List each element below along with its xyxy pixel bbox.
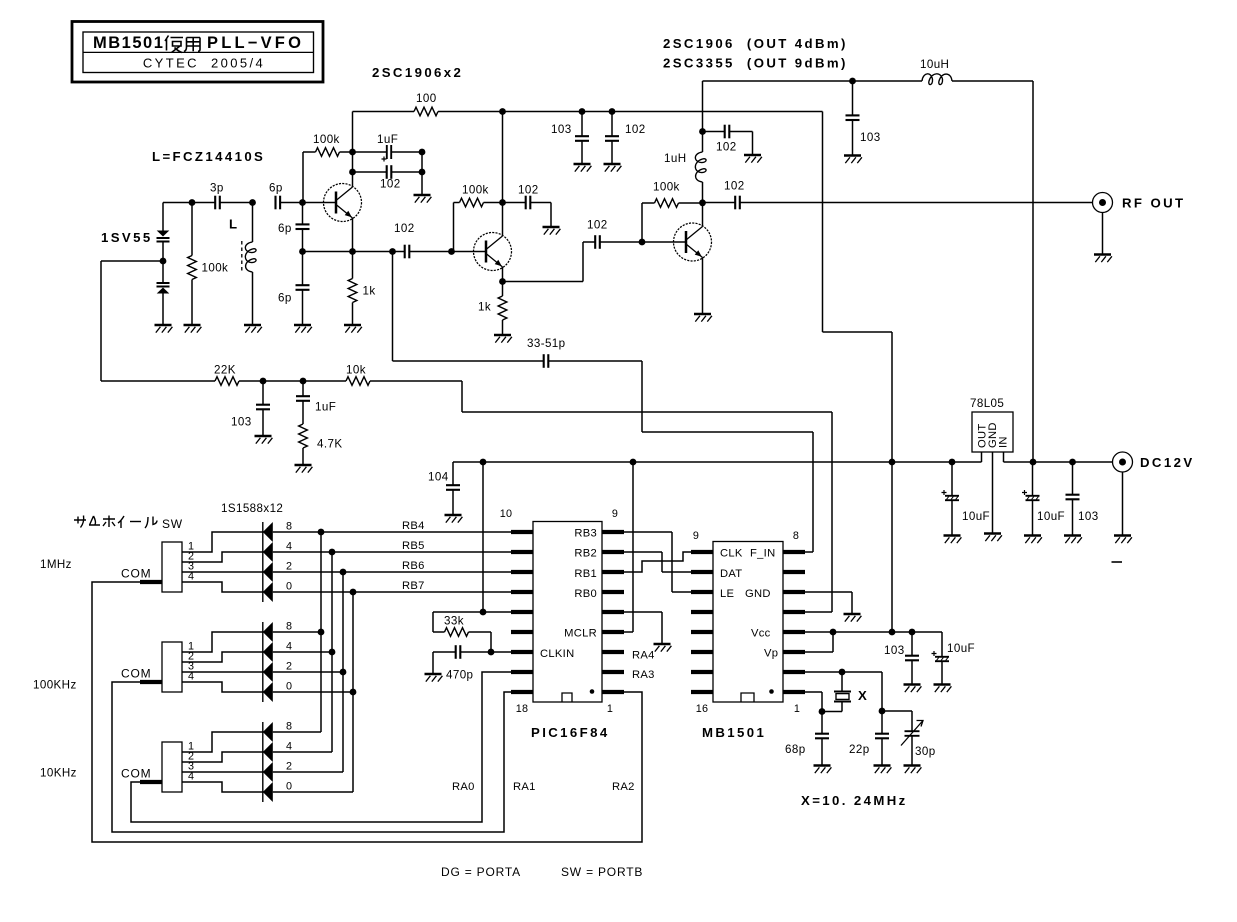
node Q1 base (299, 199, 306, 206)
ground 104 (445, 515, 463, 523)
node 22p (879, 708, 886, 715)
resistor 100 collector supply (353, 107, 503, 116)
label RF OUT (1122, 196, 1185, 211)
wire Q2 emitter out (503, 242, 584, 282)
svg-text:10uF: 10uF (947, 642, 975, 655)
ground 10uF 12V (1024, 536, 1042, 544)
label RB5 (402, 540, 425, 552)
svg-text:COM: COM (121, 767, 151, 781)
connector RF OUT (1093, 193, 1113, 213)
wire GND pin (805, 592, 852, 614)
diode bar 10KHz SW3 (262, 722, 264, 802)
transistor Q3 2SC3355 (674, 223, 712, 261)
capacitor 102 rail bypass (605, 112, 619, 165)
wire OSCin (805, 692, 822, 712)
label 103 12V (860, 131, 881, 144)
pin label RB1 (574, 568, 597, 580)
svg-text:PLL−VFO: PLL−VFO (207, 34, 304, 52)
capacitor 103 rail bypass (575, 112, 589, 165)
svg-text:68p: 68p (785, 743, 806, 756)
wire emitter rail (303, 251, 405, 253)
capacitor 470p osc (433, 645, 511, 674)
svg-text:18: 18 (516, 703, 528, 715)
bus weight0 (350, 589, 357, 792)
svg-text:102: 102 (724, 180, 745, 193)
label DC12V (1140, 455, 1195, 470)
ground 103 12V (844, 156, 862, 164)
svg-text:X: X (858, 688, 869, 703)
label L=FCZ14410S (152, 149, 265, 164)
label X (858, 688, 869, 703)
labels weights 1MHz SW1 (286, 521, 292, 593)
ground 10uF Vcc (934, 685, 952, 693)
label 470p (446, 669, 473, 682)
svg-text:RA0: RA0 (452, 781, 475, 793)
node Q2 emitter (499, 278, 506, 285)
svg-text:RA4: RA4 (632, 650, 655, 662)
svg-text:F_IN: F_IN (750, 548, 775, 560)
svg-text:104: 104 (428, 471, 449, 484)
label 1uH (664, 152, 686, 165)
wire 6p to base node (280, 202, 302, 204)
wire RB6 bus (273, 571, 511, 573)
ground 103 Vcc (904, 685, 922, 693)
node loop 103 (260, 378, 267, 385)
capacitor 10uF 5V (942, 462, 960, 536)
wire 10KHz SW3 row0 (273, 791, 353, 793)
wire feedback drop (393, 252, 544, 362)
pin label CLKIN (540, 648, 574, 660)
svg-text:RA3: RA3 (632, 669, 655, 681)
transistor Q2 2SC1906 (474, 233, 512, 271)
svg-text:0: 0 (286, 681, 292, 693)
svg-text:0: 0 (286, 781, 292, 793)
svg-text:8: 8 (286, 521, 292, 533)
svg-text:RB2: RB2 (574, 548, 597, 560)
IC U2 pins (691, 552, 805, 692)
wire DC12V gnd (1122, 472, 1124, 536)
wire RA1 (112, 682, 511, 832)
svg-text:8: 8 (793, 530, 799, 542)
node 103 12Vb (1069, 459, 1076, 466)
node feedback tap (389, 248, 396, 255)
ground 6p (294, 325, 312, 333)
svg-text:Vp: Vp (764, 648, 778, 660)
diode 1MHz SW1 d4 (263, 542, 273, 562)
wire OSCout (805, 671, 882, 673)
label 102 interstage2 (587, 219, 608, 232)
svg-text:RB0: RB0 (574, 588, 597, 600)
svg-text:1: 1 (794, 703, 800, 715)
svg-text:6p: 6p (269, 182, 283, 195)
svg-text:10: 10 (500, 508, 512, 520)
svg-text:4.7K: 4.7K (317, 438, 342, 451)
label 30p (915, 745, 936, 758)
svg-text:RA2: RA2 (612, 781, 635, 793)
svg-text:COM: COM (121, 667, 151, 681)
label X=10.24MHz (801, 793, 908, 808)
resistor 100k varactor bias (188, 203, 197, 326)
label 103 Vcc (884, 644, 905, 657)
label 104 (428, 471, 449, 484)
label 103 rail (551, 123, 572, 136)
svg-text:100k: 100k (462, 184, 489, 197)
wire collector feed (703, 81, 923, 132)
svg-text:10KHz: 10KHz (40, 767, 77, 780)
node divider tap (299, 248, 306, 255)
svg-text:SW = PORTB: SW = PORTB (561, 865, 643, 879)
wire 5V riser (823, 112, 893, 463)
svg-text:10k: 10k (346, 364, 366, 377)
capacitor 6p divider upper (278, 203, 310, 252)
wire PIC VDD (483, 462, 511, 612)
wire 100KHz SW2 pin1 (182, 632, 263, 652)
svg-text:COM: COM (121, 567, 151, 581)
label 10uF 12V (1037, 510, 1065, 523)
label 2SC1906x2 (372, 65, 463, 80)
label 100k Q1 (313, 133, 340, 146)
ground 1k Q2 (494, 335, 512, 343)
ground MB1501 (844, 614, 862, 622)
svg-text:Vcc: Vcc (751, 628, 771, 640)
diode 1MHz SW1 d1 (263, 582, 273, 602)
wire RB1 to CLK (624, 552, 691, 572)
diode 10KHz SW3 d8 (263, 722, 273, 742)
label RB4 (402, 520, 425, 532)
ground VSS (654, 644, 672, 652)
capacitor 3p (210, 182, 224, 210)
resistor 4.7K loop (299, 424, 308, 465)
wire 10KHz SW3 pin1 (182, 732, 263, 752)
ground Q1 feedback (414, 195, 432, 203)
node loop 1uF (300, 378, 307, 385)
node vdd pin14 (480, 609, 487, 616)
pin label MCLR (564, 628, 597, 640)
svg-text:6p: 6p (278, 222, 292, 235)
resistor 100k Q3 bias (642, 199, 703, 242)
node supply 1 (499, 108, 506, 115)
switch 10KHz SW3 body (162, 742, 182, 792)
svg-text:78L05: 78L05 (970, 397, 1004, 410)
IC U2 MB1501 body (713, 542, 783, 703)
wire varactor top node (163, 199, 215, 206)
capacitor 102 collector bypass (703, 125, 753, 139)
node 10uF 5V (949, 459, 956, 466)
switch 10KHz SW3 COM stub (140, 780, 162, 784)
wire RB4 bus (273, 531, 511, 533)
wire RB2 to DAT (624, 552, 691, 572)
resistor 10k loop (346, 377, 370, 386)
svg-text:103: 103 (551, 123, 572, 136)
label 100KHz (33, 679, 77, 692)
diode bar 1MHz SW1 (262, 522, 264, 602)
bus weight2 (340, 569, 347, 772)
capacitor 103 12V filter (1066, 462, 1080, 536)
ground 30p (904, 766, 922, 774)
wire 1uH top (702, 132, 704, 153)
ground Q3 emitter (694, 314, 712, 322)
svg-text:30p: 30p (915, 745, 936, 758)
svg-text:103: 103 (860, 131, 881, 144)
diode 10KHz SW3 d2 (263, 762, 273, 782)
svg-text:MB1501: MB1501 (702, 725, 766, 740)
diode 1MHz SW1 d8 (263, 522, 273, 542)
svg-text:DAT: DAT (720, 568, 742, 580)
resistor 1k Q1 (348, 252, 357, 326)
connector DC12V (1113, 452, 1133, 472)
label 102 (380, 178, 401, 191)
switch 1MHz SW1 COM stub (140, 580, 162, 584)
title box frame (72, 22, 323, 83)
IC U1 pins (511, 532, 624, 692)
svg-text:4: 4 (188, 771, 194, 783)
ground 103 rail (574, 164, 592, 172)
node Q3 base (639, 239, 646, 246)
capacitor 68p (815, 712, 829, 766)
wire to trimmer (882, 711, 912, 731)
title text MB1501(kanji) PLL-VFO (93, 34, 304, 53)
capacitor 102 interstage2 (583, 235, 674, 249)
ground 470p (425, 674, 443, 682)
node Vcc 103 (909, 629, 916, 636)
diode 10KHz SW3 d1 (263, 782, 273, 802)
wire Q2 emitter (502, 267, 504, 282)
label L (229, 217, 239, 232)
diode 100KHz SW2 d1 (263, 682, 273, 702)
varactor D2 1SV55 bottom (157, 261, 170, 325)
label 10uF Vcc (947, 642, 975, 655)
svg-text:16: 16 (696, 703, 708, 715)
wire 100KHz SW2 pin3 (182, 671, 263, 673)
wire 5V to Vcc (891, 462, 893, 632)
label 68p (785, 743, 806, 756)
ground 100k (184, 325, 202, 333)
node crystal top (839, 669, 846, 676)
wire Vcc rail (805, 631, 942, 633)
svg-text:MCLR: MCLR (564, 628, 597, 640)
svg-text:102: 102 (380, 178, 401, 191)
wire 10KHz SW3 pin2 (182, 752, 263, 762)
label thumbwheel SW katakana (74, 516, 183, 532)
svg-text:4: 4 (286, 741, 292, 753)
wire 100KHz SW2 row0 (273, 691, 353, 693)
svg-text:RB1: RB1 (574, 568, 597, 580)
capacitor 6p series (269, 182, 283, 210)
svg-text:1SV55: 1SV55 (101, 230, 153, 245)
svg-text:103: 103 (231, 416, 252, 429)
switch 100KHz SW2 COM stub (140, 680, 162, 684)
resistor 1k Q2 (498, 282, 507, 336)
capacitor 1uF loop (296, 381, 310, 424)
transistor Q1 2SC1906 (324, 184, 362, 222)
svg-text:33k: 33k (444, 615, 464, 628)
label 1k Q1 (363, 285, 376, 298)
label 10uH (920, 58, 949, 71)
capacitor 102 interstage1 (394, 222, 415, 258)
svg-text:102: 102 (587, 219, 608, 232)
svg-text:1k: 1k (363, 285, 376, 298)
svg-text:2SC1906x2: 2SC1906x2 (372, 65, 463, 80)
pin number 8 mb (793, 530, 799, 542)
wire Q3 emitter (702, 258, 704, 315)
svg-text:100: 100 (416, 92, 437, 105)
capacitor 102 Q1 feedback (353, 165, 423, 179)
wire 100KHz SW2 row8 (273, 631, 321, 633)
svg-text:IN: IN (998, 436, 1010, 448)
svg-text:0: 0 (286, 581, 292, 593)
bus weight4 (329, 549, 336, 752)
labels pins 100KHz SW2 (188, 641, 194, 683)
wire 100KHz SW2 row4 (273, 651, 332, 653)
svg-text:10uF: 10uF (962, 510, 990, 523)
pin label RB3 (574, 528, 597, 540)
pin label RB0 (574, 588, 597, 600)
ground 68p (814, 766, 832, 774)
svg-text:LE: LE (720, 588, 734, 600)
svg-text:102: 102 (394, 222, 415, 235)
pin label RB2 (574, 548, 597, 560)
label DG=PORTA (441, 865, 521, 879)
wire interstage1 (409, 251, 473, 253)
IC U1 PIC16F84 body (533, 522, 602, 703)
minus mark (1112, 561, 1123, 563)
label SW=PORTB (561, 865, 643, 879)
wire 10KHz SW3 pin3 (182, 771, 263, 773)
wire 102 cb to gnd (752, 132, 754, 156)
node varactor junction (160, 258, 167, 265)
ground 102 rail (604, 164, 622, 172)
ground RF OUT (1094, 255, 1112, 263)
svg-text:RB7: RB7 (402, 580, 425, 592)
capacitor 22p (875, 711, 889, 766)
ground 102 Q2 (543, 227, 561, 235)
crystal X 10.24MHz (822, 672, 851, 712)
wire base node to Q1 (303, 202, 324, 204)
wire top rail (503, 108, 823, 115)
label MB1501 (702, 725, 766, 740)
svg-text:102: 102 (518, 184, 539, 197)
label 100 (416, 92, 437, 105)
label 1k Q2 (478, 301, 491, 314)
ground 4.7K (295, 465, 313, 473)
node 12V branch (849, 78, 856, 85)
pin label RA3 (632, 669, 655, 681)
svg-text:2: 2 (286, 661, 292, 673)
label RB7 (402, 580, 425, 592)
inductor 10uH (922, 74, 952, 85)
capacitor 33-51p (544, 354, 549, 368)
svg-text:DC12V: DC12V (1140, 455, 1195, 470)
svg-text:4: 4 (188, 671, 194, 683)
label RB6 (402, 560, 425, 572)
wire MCLR pullup (624, 462, 633, 632)
label 22K (214, 364, 236, 377)
node OSCin (819, 708, 826, 715)
node 5V to PLL (889, 459, 896, 466)
svg-text:1uH: 1uH (664, 152, 686, 165)
resistor 100k Q1 bias (303, 148, 353, 203)
pin number 10 (500, 508, 512, 520)
svg-text:102: 102 (625, 123, 646, 136)
wire feedback to F_IN (548, 361, 813, 552)
capacitor 10uF Vcc (932, 632, 950, 685)
node 12V in (1030, 459, 1037, 466)
svg-text:9: 9 (612, 508, 618, 520)
svg-text:6p: 6p (278, 292, 292, 305)
svg-text:GND: GND (745, 588, 771, 600)
wire 1MHz SW1 pin3 (182, 571, 263, 573)
svg-text:SW: SW (162, 517, 183, 531)
label 1S1588x12 (221, 502, 283, 515)
svg-text:1uF: 1uF (315, 401, 336, 414)
pin label RA4 (632, 650, 655, 662)
wire 3p to L node (220, 202, 253, 204)
svg-text:L: L (229, 217, 239, 232)
svg-text:10uH: 10uH (920, 58, 949, 71)
wire 5V rail (453, 461, 982, 463)
svg-text:1k: 1k (478, 301, 491, 314)
svg-text:L=FCZ14410S: L=FCZ14410S (152, 149, 265, 164)
svg-text:100k: 100k (653, 181, 680, 194)
wire 10KHz SW3 pin4 (182, 782, 263, 792)
wire 10KHz SW3 row8 (273, 731, 321, 733)
bus weight8 (318, 529, 325, 732)
pin label F_IN (750, 548, 775, 560)
node Vcc 5V (889, 629, 896, 636)
ground 103 12V filter (1064, 536, 1082, 544)
wire 10KHz SW3 row2 (273, 771, 343, 773)
wire 103 12V gnd (852, 120, 854, 155)
label 10KHz (40, 767, 77, 780)
node Q1 emitter (349, 248, 356, 255)
capacitor 6p divider lower (278, 252, 310, 326)
wire VSS to gnd (624, 612, 662, 644)
node clkin (488, 649, 495, 656)
svg-text:22p: 22p (849, 743, 870, 756)
title text CYTEC 2005/4 (143, 56, 265, 71)
label 1SV55 (101, 230, 153, 245)
label 100k Q3 (653, 181, 680, 194)
pin number 18 (516, 703, 528, 715)
svg-text:CLKIN: CLKIN (540, 648, 574, 660)
svg-text:RB6: RB6 (402, 560, 425, 572)
capacitor 103 loop (256, 381, 270, 436)
pin number 1 mb (794, 703, 800, 715)
resistor 33k osc (433, 612, 491, 652)
label 102 RF (724, 180, 745, 193)
svg-text:8: 8 (286, 621, 292, 633)
svg-text:103: 103 (1078, 510, 1099, 523)
capacitor 102 Q2 bypass (503, 196, 552, 210)
wire 78L05 in (1004, 452, 1113, 462)
switch 1MHz SW1 body (162, 542, 182, 592)
node Q3 collector (699, 199, 706, 206)
capacitor 103 Vcc (905, 632, 919, 685)
pin label DAT (720, 568, 742, 580)
varactor D1 1SV55 top (157, 203, 170, 262)
svg-text:CLK: CLK (720, 548, 743, 560)
pin label LE (720, 588, 734, 600)
wire 10uH to 12V (952, 81, 1033, 462)
wire feedback to ground (421, 152, 423, 195)
label 33k (444, 615, 464, 628)
svg-text:RB5: RB5 (402, 540, 425, 552)
wire loop mid (239, 380, 346, 382)
capacitor 10uF 12V (1022, 462, 1040, 536)
svg-text:PIC16F84: PIC16F84 (531, 725, 610, 740)
node Vp tie (830, 629, 837, 636)
wire 100KHz SW2 row2 (273, 671, 343, 673)
